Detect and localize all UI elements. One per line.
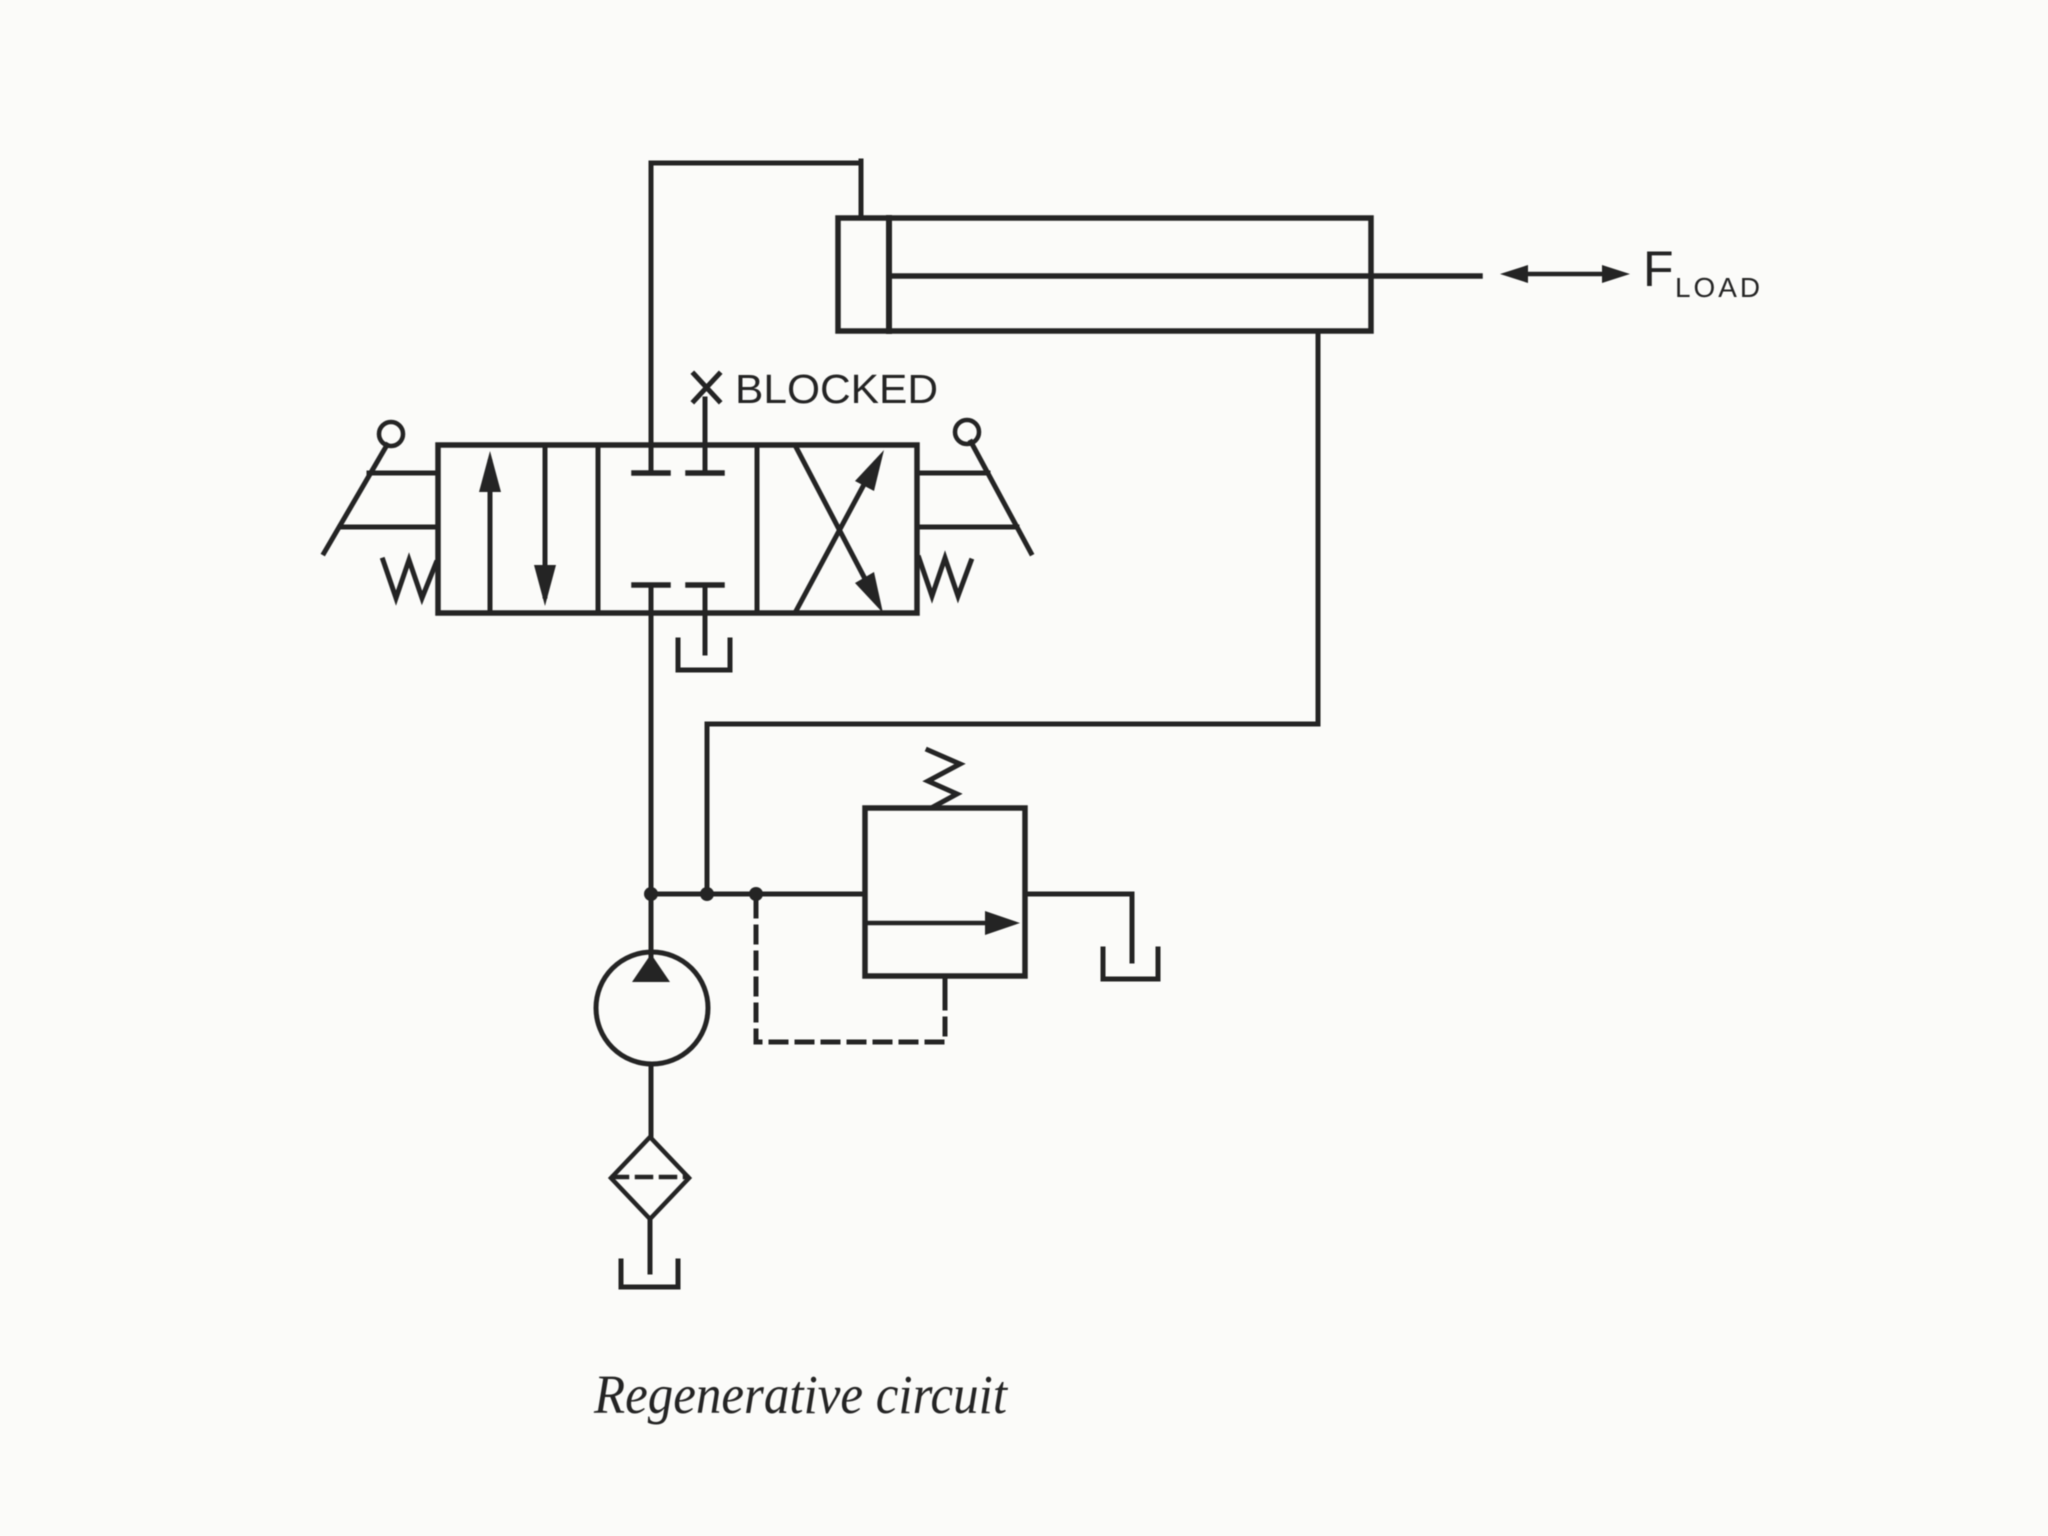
valve V1 body outline [438, 445, 917, 613]
left return spring [383, 560, 436, 598]
valve center-box blocked port bottom-left [634, 582, 668, 588]
svg-text:LOAD: LOAD [1675, 272, 1763, 303]
tank symbol under valve [678, 640, 730, 670]
relief valve outlet wire [1025, 894, 1132, 961]
valve center-box blocked port top-right [688, 470, 722, 476]
svg-text:Regenerative circuit: Regenerative circuit [593, 1364, 1009, 1425]
valve center-box blocked port bottom-right [688, 582, 722, 588]
right actuator rod upper [917, 471, 988, 476]
valve divider left [596, 445, 601, 613]
wire top horizontal run [651, 161, 861, 166]
cylinder piston [886, 218, 892, 331]
left actuator rod lower [340, 525, 438, 530]
valve left-box up arrow [479, 451, 501, 613]
node J2 [700, 887, 714, 901]
filter suction wire [648, 1219, 653, 1272]
valve port P stub down [649, 585, 654, 958]
wire down to pump bus [705, 724, 710, 894]
cylinder C1 barrel [838, 218, 1371, 331]
pilot dashed line [756, 901, 945, 1042]
filter F1 diamond [611, 1137, 689, 1219]
pressure bus wire [651, 892, 865, 897]
caption Regenerative circuit [593, 1364, 1009, 1425]
wire down to cylinder cap port [859, 161, 864, 218]
node J1 [644, 887, 658, 901]
valve port T stub down to tank [703, 585, 708, 653]
right return spring [919, 558, 971, 596]
node J3 [749, 887, 763, 901]
pump outlet triangle [632, 954, 670, 982]
tank symbol bottom [621, 1261, 678, 1287]
valve divider right [755, 445, 760, 613]
filter element dashed [613, 1175, 687, 1180]
right lever knob [955, 420, 979, 444]
relief valve V2 body [865, 808, 1025, 976]
cylinder rod [889, 273, 1480, 279]
relief valve spring [928, 750, 960, 807]
svg-text:BLOCKED: BLOCKED [735, 366, 938, 412]
svg-text:F: F [1643, 241, 1674, 297]
valve left-box down arrow [534, 445, 556, 606]
relief valve flow arrow [866, 911, 1020, 935]
wire from cylinder rod-end port down [1316, 331, 1321, 724]
right actuator rod lower [917, 525, 1017, 530]
wire from valve port A up [649, 163, 654, 473]
valve center-box blocked port top-left [634, 470, 668, 476]
right lever arm [971, 442, 1031, 553]
left actuator rod upper [369, 471, 438, 476]
blocked port X mark [694, 374, 719, 401]
label F LOAD [1643, 241, 1763, 303]
wire long horizontal return [707, 722, 1318, 727]
valve right-box crossed arrow down [796, 447, 883, 613]
tank symbol right [1103, 949, 1158, 979]
left lever arm [324, 445, 387, 553]
valve right-box crossed arrow up [796, 450, 884, 611]
left lever knob [379, 422, 403, 446]
label BLOCKED [735, 366, 938, 412]
pump P1 circle [596, 952, 708, 1064]
relief valve pilot stub [943, 976, 948, 992]
load double arrow [1500, 265, 1630, 283]
pump suction wire [649, 1064, 654, 1137]
wire stub from X down to valve port B [703, 399, 708, 473]
